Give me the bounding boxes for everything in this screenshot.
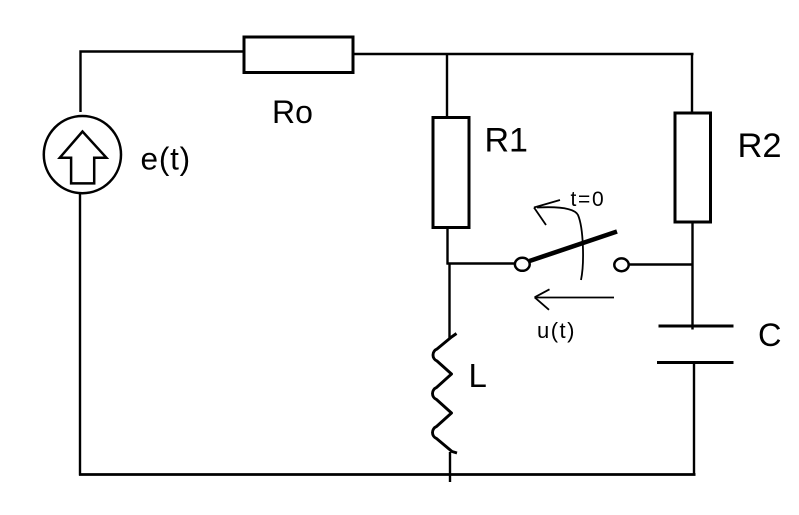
svg-text:t=0: t=0 [571,188,606,211]
svg-text:Ro: Ro [272,94,313,130]
svg-text:R2: R2 [738,127,782,165]
svg-text:L: L [469,357,487,394]
svg-text:C: C [758,317,781,353]
svg-text:e(t): e(t) [141,141,191,177]
svg-text:u(t): u(t) [537,318,576,343]
svg-text:R1: R1 [485,122,528,160]
